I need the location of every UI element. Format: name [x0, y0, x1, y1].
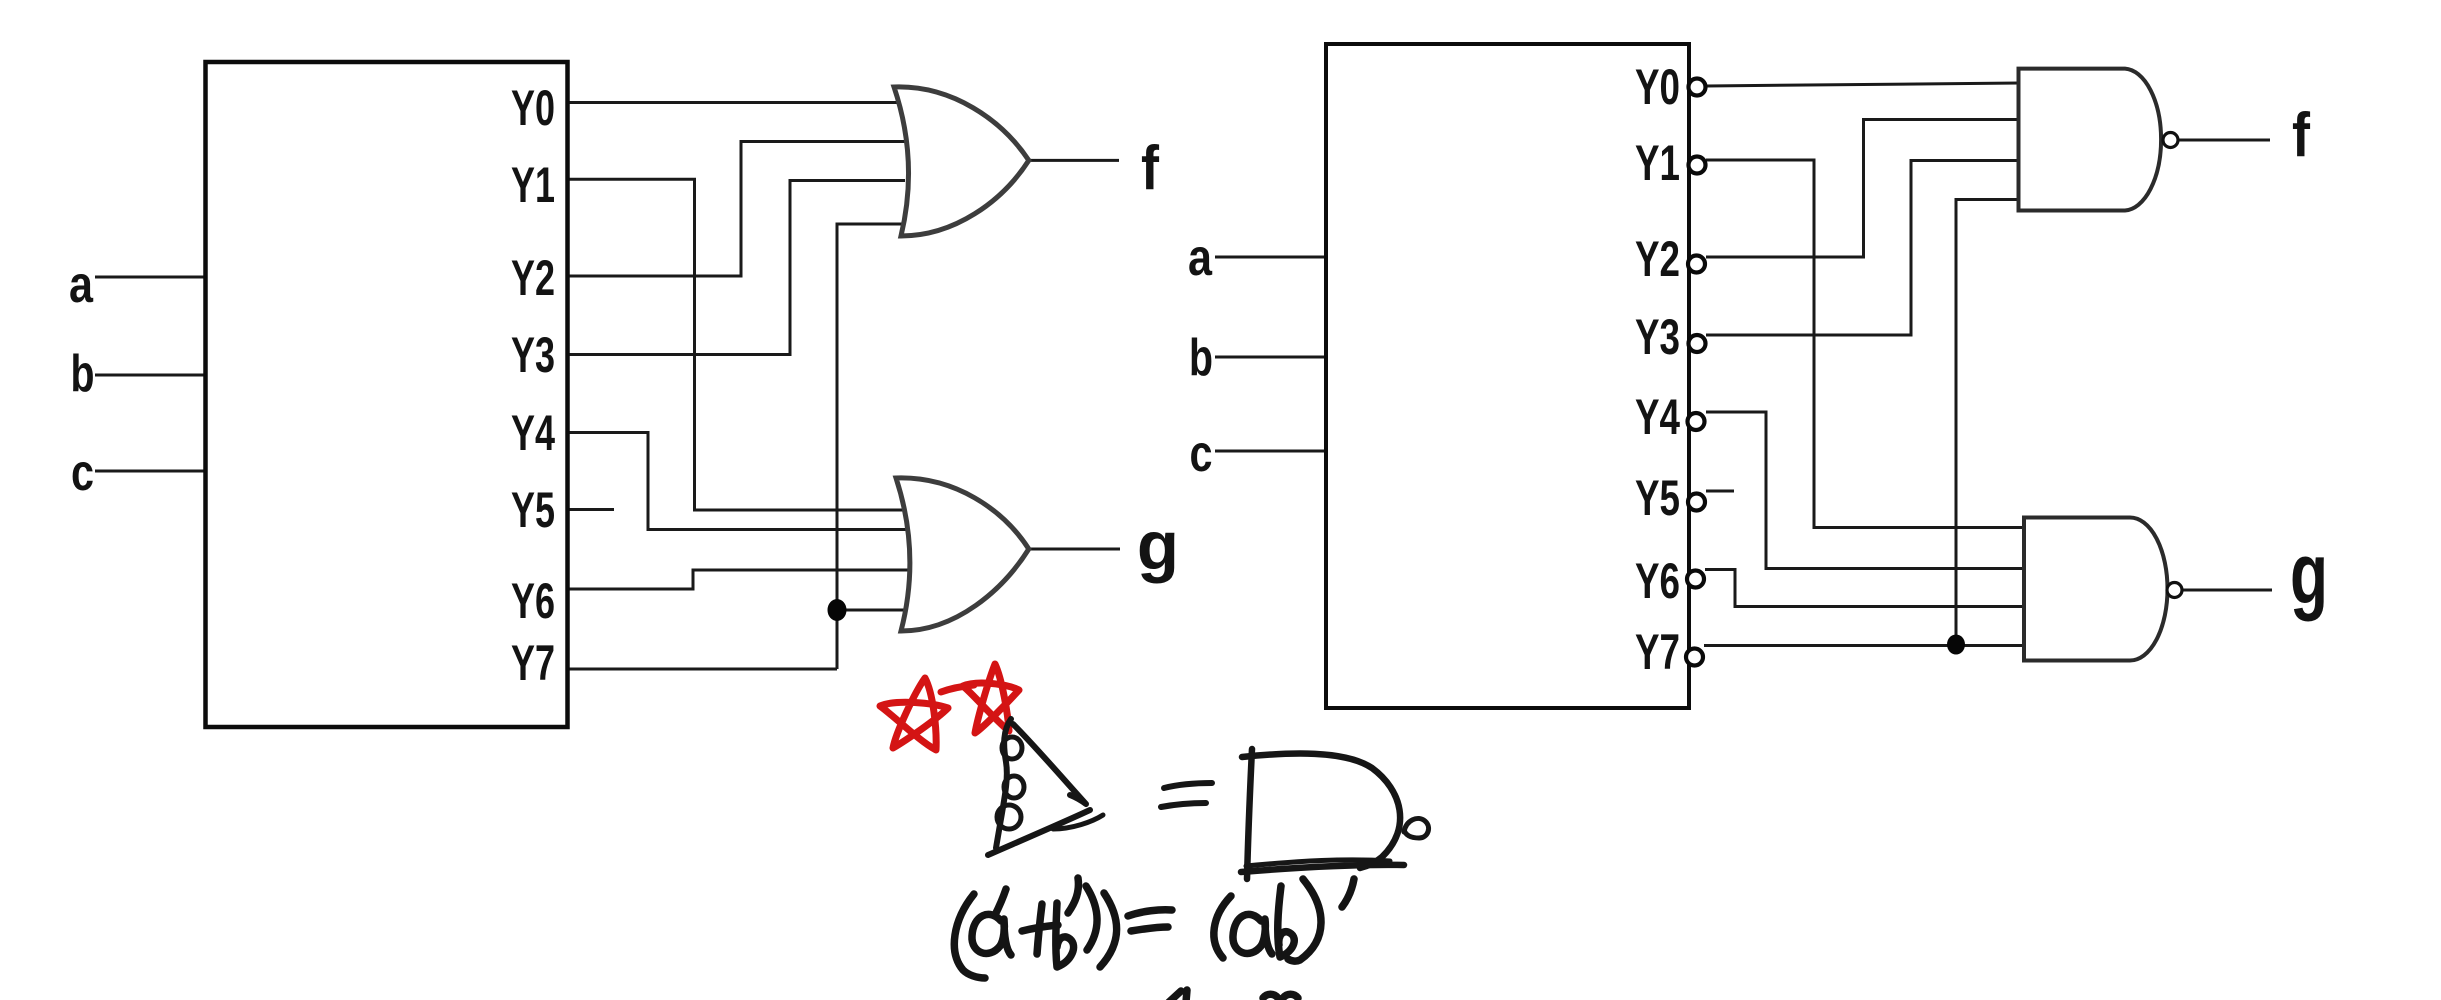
sketched NAND output bubble: [1404, 818, 1429, 838]
NAND U6 output bubble: [2167, 583, 2182, 598]
wire Y7 vertical to OR U2 input 4: [837, 224, 905, 669]
wire Y6 to OR U3 input 3: [567, 570, 915, 589]
NAND U5 output bubble: [2163, 133, 2178, 148]
formula: =: [1128, 910, 1172, 916]
wire Y7 to NAND U6 input 4: [1704, 644, 2026, 647]
svg-text:a: a: [69, 256, 94, 314]
wire NAND U5 output f: [2178, 139, 2270, 142]
formula: a (2nd): [1233, 914, 1272, 954]
formula: b: [1056, 903, 1074, 967]
wire Y4 to NAND U6 input 2: [1706, 412, 2026, 569]
svg-text:Y0: Y0: [511, 80, 555, 136]
wire OR U3 output g: [1028, 548, 1120, 551]
wire Y1 to NAND U6 input 1: [1706, 160, 2026, 528]
svg-text:Y2: Y2: [1635, 231, 1680, 287]
formula: apostrophe after a: [995, 889, 1006, 915]
sketched gate input bubble 3: [997, 805, 1021, 829]
NAND gate U5 (f, right): [2019, 69, 2162, 211]
node B junction dot (right): [1947, 635, 1965, 655]
svg-text:Y5: Y5: [511, 482, 555, 538]
formula: (: [954, 894, 985, 978]
op... OR gate U2 (f, left): [894, 87, 1029, 236]
wire input c (left): [95, 470, 206, 473]
wire Y5 stub: [567, 508, 614, 511]
wire input a (left): [95, 276, 206, 279]
sketched NAND: bottom stroke 1: [1241, 865, 1404, 872]
svg-text:b: b: [1189, 329, 1213, 387]
formula: ) second: [1100, 893, 1117, 967]
svg-text:Y6: Y6: [511, 573, 555, 629]
wire input b (left): [95, 374, 206, 377]
wire Y5 stub (right): [1706, 490, 1734, 493]
sketched gate top edge: [1013, 724, 1086, 804]
svg-text:f: f: [1141, 134, 1159, 203]
OR gate U3 (g, left): [896, 478, 1029, 631]
decoder U4 (right 3-to-8 decoder box): [1326, 44, 1689, 708]
svg-text:Y1: Y1: [1635, 135, 1680, 191]
wire Y1 to OR U3 input 1: [567, 179, 915, 510]
wire Y6 to NAND U6 input 3: [1705, 570, 2026, 607]
wire Y2 to OR U2 input 2: [567, 142, 905, 277]
svg-text:g: g: [1137, 507, 1179, 584]
wire Y0 to OR U2 input 1: [567, 101, 905, 104]
svg-text:f: f: [2292, 101, 2310, 170]
formula: ) (2nd): [1288, 879, 1321, 961]
decoder U4 output bubble Y2: [1688, 256, 1705, 273]
svg-text:Y2: Y2: [511, 250, 555, 306]
formula: (: [1214, 896, 1231, 958]
wire Y0 to NAND U5 input 1: [1706, 83, 2020, 86]
sketched NAND: bottom stroke 2: [1246, 860, 1390, 866]
formula: ) first: [1086, 886, 1097, 950]
svg-text:Y4: Y4: [1635, 389, 1680, 445]
wire Y2 to NAND U5 input 2: [1706, 120, 2020, 258]
sketched NAND: top and right curve: [1242, 754, 1400, 868]
svg-text:a: a: [1188, 229, 1213, 287]
bottom partial glyphs 22: [1263, 994, 1298, 998]
svg-text:Y5: Y5: [1635, 470, 1680, 526]
wire NAND U6 output g: [2182, 589, 2272, 592]
svg-text:Y1: Y1: [511, 157, 555, 213]
wire Y3 to OR U2 input 3: [567, 181, 905, 355]
decoder U4 output bubble Y1: [1689, 157, 1706, 174]
decoder U1 (left 3-to-8 decoder box): [206, 62, 568, 727]
formula: b (2nd): [1278, 886, 1295, 957]
wire Y7 horizontal: [567, 668, 837, 671]
decoder U4 output bubble Y5: [1688, 494, 1705, 511]
formula: +: [1037, 904, 1042, 954]
decoder U4 output bubble Y4: [1688, 413, 1705, 430]
bottom partial glyph 4: [1169, 990, 1187, 1000]
svg-text:g: g: [2290, 526, 2328, 622]
svg-text:b: b: [71, 345, 95, 403]
svg-text:Y7: Y7: [1635, 624, 1680, 680]
formula: tall apostrophe after b: [1068, 878, 1078, 913]
svg-text:c: c: [71, 444, 94, 502]
wire OR U2 output f: [1028, 159, 1119, 162]
svg-text:Y7: Y7: [511, 635, 555, 691]
wire input c (right): [1215, 450, 1327, 453]
wire node A branch to OR U3 input 4: [837, 609, 915, 612]
node A junction dot (left): [828, 599, 847, 621]
wire input a (right): [1215, 256, 1327, 259]
svg-text:Y0: Y0: [1635, 59, 1680, 115]
decoder U4 output bubble Y7: [1686, 649, 1703, 666]
sketch equals sign: [1164, 783, 1212, 788]
decoder U4 output bubble Y0: [1689, 79, 1706, 96]
svg-text:Y3: Y3: [511, 327, 555, 383]
formula: final apostrophe: [1342, 879, 1354, 907]
sketched gate tip swoosh: [1053, 815, 1103, 829]
sketched gate input bubble 2: [1004, 776, 1024, 798]
red scribble star 1: [880, 678, 948, 750]
formula: a: [972, 914, 1011, 955]
red connector stroke: [941, 685, 974, 692]
svg-text:Y3: Y3: [1635, 309, 1680, 365]
decoder U4 output bubble Y6: [1687, 571, 1704, 588]
NAND gate U6 (g, right): [2024, 518, 2168, 661]
sketched NAND: left vertical: [1247, 749, 1252, 879]
sketched gate input bubble 1: [1002, 737, 1022, 759]
wire node B vertical to NAND U5 input 4: [1956, 200, 2020, 645]
wire input b (right): [1215, 356, 1327, 359]
wire Y3 to NAND U5 input 3: [1706, 161, 2020, 336]
svg-text:Y6: Y6: [1635, 553, 1680, 609]
sketched gate bottom edge: [988, 810, 1090, 855]
svg-text:c: c: [1190, 425, 1213, 483]
decoder U4 output bubble Y3: [1689, 335, 1706, 352]
wire Y4 to OR U3 input 2: [567, 433, 915, 530]
red scribble star 2: [963, 664, 1019, 733]
sketched OR-with-inverted-inputs gate: left edge: [996, 719, 1011, 848]
svg-text:Y4: Y4: [511, 405, 555, 461]
